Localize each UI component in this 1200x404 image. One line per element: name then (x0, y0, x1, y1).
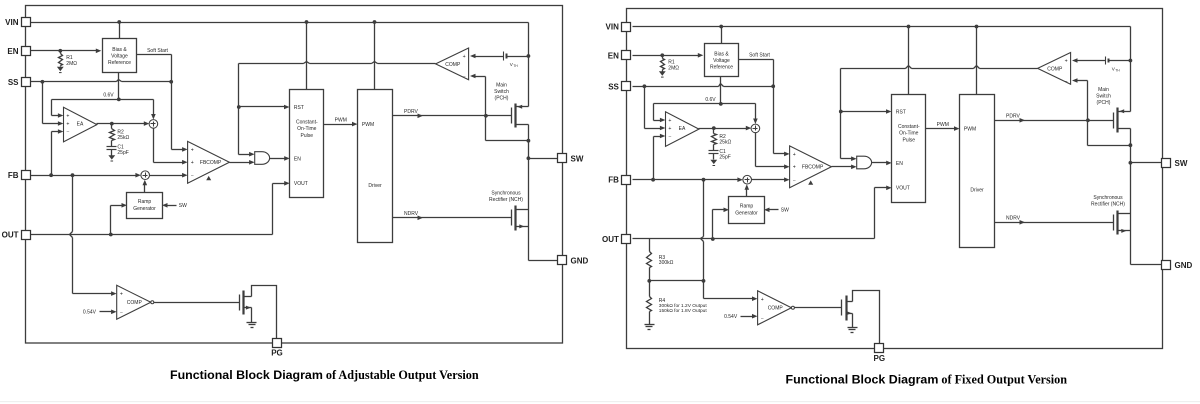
svg-text:EN: EN (608, 51, 619, 60)
transistor Q3 power-good open-drain (fixed) (841, 300, 843, 316)
pin SW (fixed) (1162, 159, 1171, 168)
svg-text:Switch: Switch (1096, 93, 1111, 99)
svg-text:FBCOMP: FBCOMP (200, 160, 222, 166)
wire PDRV (393, 115, 512, 117)
svg-text:TH: TH (513, 64, 518, 68)
comparator FBCOMP (188, 141, 230, 183)
svg-text:Driver: Driver (970, 188, 984, 194)
wire PDRV (995, 120, 1114, 122)
node OUT-ramp junction (109, 233, 113, 237)
pin OUT (fixed) (622, 235, 631, 244)
svg-text:2MΩ: 2MΩ (668, 65, 679, 71)
node FB-divider junction (702, 178, 706, 182)
wire FBCOMP output (832, 166, 853, 168)
wire Soft Start net (137, 54, 172, 56)
svg-text:PWM: PWM (362, 122, 374, 128)
svg-text:Main: Main (496, 82, 507, 88)
node PDRV-COMP junction (1086, 118, 1090, 122)
svg-text:25pF: 25pF (117, 150, 128, 156)
node VIN-driver junction (975, 25, 979, 29)
capacitor C1 25pF (713, 150, 715, 151)
node FB-PGcomp junction (71, 173, 75, 177)
wire RST branch (239, 106, 285, 108)
wire ramp output to S2 (746, 189, 748, 197)
svg-text:SW: SW (1175, 159, 1188, 168)
svg-text:COMP: COMP (127, 300, 143, 306)
svg-text:EA: EA (679, 126, 686, 132)
svg-text:+: + (191, 147, 194, 153)
wire RST branch (841, 111, 887, 113)
svg-text:Voltage: Voltage (713, 58, 730, 64)
wire S2 output to FBCOMP inverting (752, 179, 786, 181)
svg-text:+: + (463, 54, 466, 60)
svg-text:On-Time: On-Time (297, 126, 316, 132)
node COMP-SW junction (527, 139, 531, 143)
wire SW node (1130, 146, 1132, 214)
svg-text:OUT: OUT (602, 235, 619, 244)
wire PWM (926, 128, 955, 130)
wire NDRV (393, 217, 512, 219)
svg-text:–: – (669, 134, 672, 139)
svg-text:Bias &: Bias & (714, 52, 729, 58)
resistor R2 25k&#937; (111, 124, 113, 129)
battery VTH (1105, 57, 1107, 65)
svg-text:0.54V: 0.54V (724, 314, 738, 320)
summing node S1 EA plus ramp (149, 120, 158, 129)
wire EA output (97, 123, 145, 125)
wire FB input (31, 175, 137, 177)
pin FB (fixed) (622, 176, 631, 185)
svg-text:Driver: Driver (368, 183, 382, 189)
node 0.6V junction (719, 102, 723, 106)
svg-text:GND: GND (1175, 261, 1193, 270)
wire S2 output to FBCOMP inverting (150, 175, 184, 177)
wire 0.6V reference net (720, 77, 722, 104)
wire SS to EA second input (42, 82, 44, 124)
svg-text:–: – (1065, 79, 1068, 84)
wire driver VIN feed (374, 23, 376, 90)
svg-text:+: + (66, 121, 69, 127)
svg-text:+: + (1065, 58, 1068, 64)
outer boundary of IC block (fixed) (627, 9, 1163, 349)
transistor Q1 main switch PCH (1113, 113, 1115, 129)
node OUT-ramp junction (711, 237, 715, 241)
svg-text:PWM: PWM (964, 127, 976, 133)
svg-text:VIN: VIN (5, 18, 19, 27)
pin VIN (fixed) (622, 23, 631, 32)
block U4 Driver (358, 90, 393, 243)
svg-text:Reference: Reference (710, 65, 733, 71)
capacitor C1 25pF (111, 145, 113, 147)
svg-text:(PCH): (PCH) (495, 96, 509, 102)
page separator line (0, 401, 1200, 402)
svg-text:2MΩ: 2MΩ (66, 61, 77, 67)
wire OUT to VOUT (31, 234, 273, 236)
pin GND (558, 256, 567, 265)
ground below R4 (645, 324, 655, 326)
svg-text:Rectifier (NCH): Rectifier (NCH) (489, 197, 523, 203)
wire OUT to VOUT (633, 238, 875, 240)
svg-text:+: + (120, 292, 123, 298)
wire 0.6V reference net (118, 73, 120, 100)
wire COT VIN feed (908, 27, 910, 95)
block U3 Constant-On-Time Pulse (892, 95, 926, 203)
wire FBCOMP output (230, 162, 251, 164)
node VIN-bias junction (117, 20, 121, 24)
svg-text:EA: EA (77, 121, 84, 127)
wire divider mid node (650, 280, 704, 282)
wire Soft Start net (739, 59, 774, 61)
svg-text:PG: PG (874, 354, 886, 363)
resistor R3 300k&#937; (649, 239, 651, 252)
svg-text:Synchronous: Synchronous (491, 190, 521, 196)
node EN-R1 junction (58, 49, 62, 53)
svg-text:+: + (668, 126, 671, 132)
op-amp EA error amplifier (64, 107, 97, 142)
node FB-EA junction (651, 178, 655, 182)
wire bias box VIN feed (721, 27, 723, 44)
wire PG comparator output (fixed) (795, 307, 842, 309)
svg-text:Ramp: Ramp (740, 204, 754, 210)
node SS-softstart junction (169, 80, 173, 84)
pin SW (558, 154, 567, 163)
wire COMP output rail (841, 68, 906, 70)
svg-text:–: – (67, 129, 70, 134)
pin FB (22, 171, 31, 180)
battery VTH (503, 52, 505, 61)
svg-text:VIN: VIN (606, 23, 620, 32)
wire COMP minus input to SW (470, 74, 476, 79)
svg-text:+: + (668, 118, 671, 124)
node VIN-COT junction (305, 20, 309, 24)
svg-text:Pulse: Pulse (301, 133, 314, 139)
svg-text:(PCH): (PCH) (1097, 100, 1111, 106)
svg-text:COMP: COMP (445, 62, 461, 68)
ground below C1 (108, 155, 115, 159)
wire bias box VIN feed (119, 23, 121, 39)
hysteresis mark under FBCOMP (808, 180, 813, 184)
svg-text:–: – (463, 74, 466, 79)
svg-text:NDRV: NDRV (1006, 216, 1021, 222)
svg-text:SW: SW (179, 203, 187, 209)
svg-text:EN: EN (294, 156, 301, 162)
wire AND output to EN (270, 158, 285, 160)
svg-text:COMP: COMP (1047, 66, 1063, 72)
svg-text:0.6V: 0.6V (705, 97, 716, 103)
svg-text:Synchronous: Synchronous (1093, 195, 1123, 201)
wire COMP output rail (239, 63, 304, 65)
svg-text:NDRV: NDRV (404, 211, 419, 217)
svg-text:SW: SW (781, 208, 789, 214)
svg-text:Functional Block Diagram of Ad: Functional Block Diagram of Adjustable O… (170, 368, 479, 382)
wire SW input to ramp generator (769, 209, 779, 211)
wire to SW pin (529, 158, 563, 160)
hysteresis mark under FBCOMP (206, 176, 211, 180)
wire S1 output to FBCOMP (153, 129, 155, 163)
node RST junction (839, 110, 843, 114)
svg-text:SW: SW (571, 154, 584, 163)
wire COMP minus input to SW (1072, 78, 1078, 83)
AND gate U2 (255, 152, 270, 165)
pin OUT (22, 231, 31, 240)
svg-text:Functional Block Diagram of Fi: Functional Block Diagram of Fixed Output… (786, 372, 1068, 386)
node SW junction (527, 156, 531, 160)
svg-text:Main: Main (1098, 87, 1109, 93)
svg-text:FB: FB (608, 176, 619, 185)
wire ramp generator input from OUT (110, 206, 112, 235)
block U1 Bias and Voltage Reference (705, 44, 739, 77)
pin EN (fixed) (622, 51, 631, 60)
block U5 Ramp Generator (127, 193, 163, 219)
node SS-EA junction (41, 80, 45, 84)
comparator COMP power-good (fixed) (758, 291, 792, 325)
node FB-EA junction (49, 173, 53, 177)
ground below R1 (57, 67, 64, 71)
pin EN (22, 47, 31, 56)
wire EA inverting input from FB (52, 131, 59, 133)
svg-text:Rectifier (NCH): Rectifier (NCH) (1091, 201, 1125, 207)
block U4 Driver (960, 95, 995, 248)
op-amp EA error amplifier (666, 112, 699, 147)
wire EA output (699, 128, 747, 130)
outer boundary of IC block (adjustable) (26, 6, 563, 344)
wire SS input (31, 81, 117, 83)
wire 0.54V input (fixed) (741, 316, 754, 318)
svg-text:25kΩ: 25kΩ (117, 135, 129, 141)
wire driver VIN feed (976, 27, 978, 95)
svg-text:OUT: OUT (2, 231, 19, 240)
svg-text:–: – (191, 173, 194, 178)
wire EN input (633, 55, 699, 57)
resistor R2 25k&#937; (713, 129, 715, 134)
wire to GND pin (1131, 264, 1163, 266)
pin SS (fixed) (622, 82, 631, 91)
svg-text:FB: FB (8, 171, 19, 180)
pin SS (22, 78, 31, 87)
ground below Q3 (247, 322, 257, 324)
wire SW input to ramp generator (167, 205, 177, 207)
block U5 Ramp Generator (729, 197, 765, 224)
resistor R1 2M&#937; (60, 51, 62, 54)
wire 0.54V input (100, 311, 113, 313)
wire ramp generator input from OUT (712, 210, 714, 239)
pin PG (273, 339, 282, 348)
node EN-R1 junction (660, 53, 664, 57)
pin PG (fixed) (875, 344, 884, 353)
svg-text:EN: EN (7, 47, 18, 56)
svg-text:150kΩ for 1.8V Output: 150kΩ for 1.8V Output (659, 308, 708, 314)
wire NDRV (995, 222, 1114, 224)
wire FB to divider (703, 180, 705, 237)
wire EN input (31, 50, 97, 52)
svg-text:Constant-: Constant- (898, 124, 920, 130)
svg-text:–: – (761, 315, 764, 320)
wire ramp output to S2 (144, 185, 146, 193)
svg-text:+: + (793, 165, 796, 171)
svg-text:0.6V: 0.6V (103, 92, 114, 98)
wire to GND pin (529, 260, 563, 262)
svg-text:PDRV: PDRV (404, 109, 418, 115)
node VIN-COT junction (907, 25, 911, 29)
svg-text:PWM: PWM (937, 122, 949, 128)
wire FB to PG comparator (72, 176, 74, 232)
svg-text:PDRV: PDRV (1006, 114, 1020, 120)
node SS-EA junction (643, 84, 647, 88)
svg-text:Switch: Switch (494, 89, 509, 95)
wire COMP plus input (1072, 58, 1078, 63)
svg-text:Generator: Generator (735, 210, 758, 216)
svg-text:+: + (761, 297, 764, 303)
inverter bubble on PG comparator (151, 301, 154, 304)
svg-text:Generator: Generator (133, 206, 156, 212)
svg-text:COMP: COMP (768, 306, 784, 312)
transistor Q2 synchronous rectifier NCH (1113, 215, 1115, 231)
svg-text:RST: RST (294, 105, 304, 111)
node SW junction (1129, 161, 1133, 165)
AND gate U2 (857, 156, 872, 169)
svg-text:GND: GND (571, 256, 589, 265)
svg-text:Constant-: Constant- (296, 119, 318, 125)
svg-text:EN: EN (896, 161, 903, 167)
wire divider to PG comparator plus (703, 281, 705, 299)
node PDRV-COMP junction (484, 114, 488, 118)
node 0.6V junction (117, 98, 121, 102)
ground below C1 (710, 160, 717, 164)
svg-text:+: + (66, 113, 69, 119)
ground below R1 (659, 71, 666, 75)
svg-text:–: – (793, 178, 796, 183)
ground below Q3 (fixed) (848, 327, 858, 329)
comparator FBCOMP (790, 146, 832, 188)
svg-text:PG: PG (271, 349, 283, 358)
comparator COMP minimum-on detector (1038, 53, 1071, 85)
transistor Q1 main switch PCH (511, 108, 513, 124)
svg-text:0.54V: 0.54V (83, 310, 97, 316)
wire COT VIN feed (306, 23, 308, 90)
wire SS to EA second input (644, 87, 646, 129)
node VIN-driver junction (373, 20, 377, 24)
wire to SW pin (1131, 162, 1163, 164)
svg-text:25pF: 25pF (719, 155, 730, 161)
svg-text:Soft Start: Soft Start (749, 53, 770, 59)
block U1 Bias and Voltage Reference (103, 39, 137, 73)
node VTH-VIN junction (527, 54, 531, 58)
node divider-FB junction (702, 279, 706, 283)
summing node S2 FB plus ramp (141, 171, 150, 180)
comparator COMP power-good (117, 285, 151, 319)
wire SW node (528, 141, 530, 210)
transistor Q2 synchronous rectifier NCH (511, 210, 513, 226)
svg-text:TH: TH (1115, 69, 1120, 73)
resistor R4 (649, 281, 651, 297)
svg-text:Soft Start: Soft Start (147, 48, 168, 54)
svg-text:SS: SS (8, 78, 19, 87)
svg-text:25kΩ: 25kΩ (719, 140, 731, 146)
node R3-R4 junction (647, 279, 651, 283)
node EA output junction (712, 126, 716, 130)
svg-text:On-Time: On-Time (899, 131, 918, 137)
pin GND (fixed) (1162, 261, 1171, 270)
node RST junction (237, 105, 241, 109)
wire AND output to EN (872, 162, 887, 164)
svg-text:FBCOMP: FBCOMP (802, 165, 824, 171)
wire PG comparator output (154, 302, 240, 304)
summing node S1 EA plus ramp (751, 124, 760, 133)
svg-text:–: – (120, 310, 123, 315)
svg-text:+: + (191, 160, 194, 166)
transistor Q3 power-good open-drain (239, 295, 241, 311)
node VIN-bias junction (719, 25, 723, 29)
comparator COMP minimum-on detector (436, 48, 469, 80)
wire FB input (633, 179, 739, 181)
svg-text:VOUT: VOUT (896, 186, 910, 192)
svg-text:RST: RST (896, 109, 906, 115)
resistor R1 2M&#937; (662, 56, 664, 59)
svg-text:SS: SS (608, 82, 619, 91)
summing node S2 FB plus ramp (743, 175, 752, 184)
wire VIN rail (31, 22, 529, 24)
svg-text:Ramp: Ramp (138, 199, 152, 205)
wire PWM (324, 124, 353, 126)
pin VIN (22, 18, 31, 27)
node COMP-SW junction (1129, 143, 1133, 147)
wire VIN rail (633, 26, 1131, 28)
node VTH-VIN junction (1129, 59, 1133, 63)
svg-text:Reference: Reference (108, 60, 131, 66)
node SS-softstart junction (771, 84, 775, 88)
wire SS input (633, 86, 719, 88)
svg-text:Pulse: Pulse (903, 137, 916, 143)
svg-text:Bias &: Bias & (112, 47, 127, 53)
wire COMP plus input (470, 54, 476, 59)
svg-text:+: + (793, 152, 796, 158)
svg-text:PWM: PWM (335, 117, 347, 123)
block U3 Constant-On-Time Pulse (290, 90, 324, 198)
svg-text:300kΩ: 300kΩ (659, 260, 674, 266)
node EA output junction (110, 122, 114, 126)
svg-text:R4: R4 (659, 298, 666, 304)
inverter bubble on PG comparator (fixed) (791, 306, 794, 309)
svg-text:Voltage: Voltage (111, 54, 128, 60)
wire S1 output to FBCOMP (755, 133, 757, 167)
svg-text:VOUT: VOUT (294, 181, 308, 187)
wire EA inverting input from FB (654, 136, 661, 138)
